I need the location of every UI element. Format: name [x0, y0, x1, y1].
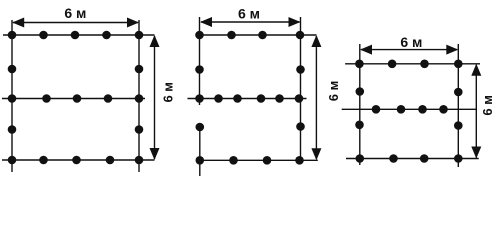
plot 3 tree dots middle row — [372, 105, 381, 114]
plot 1 tree dots right edge — [135, 65, 144, 74]
plot 1 width dimension left arrowhead — [12, 18, 24, 28]
plot 1 tree dots bottom row — [8, 156, 17, 165]
plot 3 tree dots bottom row — [356, 154, 365, 163]
plot 3 tree dots right edge — [454, 88, 463, 97]
plot 3 height dimension bottom arrowhead — [471, 147, 481, 159]
plot 3 right boundary line — [457, 44, 459, 167]
plot 2 bottom boundary line — [200, 159, 318, 161]
plot 3 height dimension line — [475, 65, 477, 158]
plot 1 height dimension bottom arrowhead — [150, 148, 160, 160]
plot 1 top boundary line — [3, 34, 155, 36]
plot 2 height dimension top arrowhead — [311, 35, 321, 47]
plot 2 height dimension line — [315, 36, 317, 159]
plot 2 tree dots top row — [195, 31, 204, 40]
plot 3 width dimension left arrowhead — [360, 45, 372, 55]
plot 3 left boundary line — [359, 44, 361, 165]
plot 1 right boundary line — [138, 20, 140, 172]
plot 2 tree dots bottom row — [196, 156, 205, 165]
plot 3 bottom boundary line — [346, 158, 479, 160]
plot 2 tree dots left edge — [195, 65, 204, 74]
plot 1 height dimension top arrowhead — [150, 35, 160, 47]
plot 2 left inner line lower segment — [199, 127, 201, 176]
plot 3 tree dots top row — [355, 60, 364, 69]
plot 2 width dimension right arrowhead — [289, 17, 301, 27]
plot 2 height dimension bottom arrowhead — [311, 148, 321, 160]
plot 2 tree dots middle row — [195, 94, 204, 103]
plot 2 middle row line — [188, 98, 307, 100]
svg-text:6 м: 6 м — [400, 34, 422, 50]
plot 2 top boundary line — [200, 34, 317, 36]
svg-text:6 м: 6 м — [161, 82, 176, 102]
plot 3 tree dots left edge — [356, 87, 365, 96]
plot 3 top boundary line — [345, 63, 480, 65]
svg-text:6 м: 6 м — [480, 95, 495, 115]
plot 1 middle row line — [2, 98, 145, 100]
plot 1 tree dots left edge — [8, 65, 17, 74]
svg-text:6 м: 6 м — [326, 81, 341, 101]
svg-text:6 м: 6 м — [238, 6, 260, 22]
plot 3 height dimension top arrowhead — [471, 64, 481, 76]
plot 1 width dimension line — [13, 22, 138, 24]
plot 2 width dimension left arrowhead — [200, 17, 212, 27]
plot 2 right boundary line — [300, 17, 302, 160]
plot 3 middle row line — [342, 108, 477, 110]
plot 1 width dimension right arrowhead — [127, 18, 139, 28]
plot 1 height dimension line — [154, 36, 156, 159]
plot 1 bottom boundary line — [2, 159, 155, 161]
plot 2 left boundary line upper segment — [199, 17, 201, 105]
plot 2 width dimension line — [201, 21, 300, 23]
plot 3 width dimension right arrowhead — [446, 45, 458, 55]
plot 2 tree dots right edge — [296, 65, 305, 74]
plot 1 tree dots top row — [8, 31, 17, 40]
plot 1 tree dots middle row — [8, 94, 17, 103]
svg-text:6 м: 6 м — [64, 5, 86, 21]
plot 1 left boundary line — [11, 20, 13, 172]
plot 3 width dimension line — [361, 49, 457, 51]
